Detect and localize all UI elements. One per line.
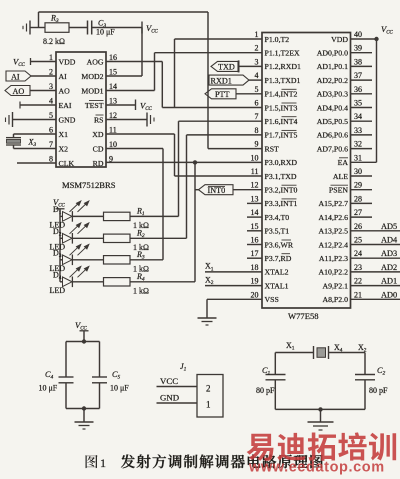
svg-text:AD3,P0.3: AD3,P0.3 xyxy=(317,90,348,99)
wire Vcc rail for LEDs xyxy=(59,209,61,282)
svg-text:8: 8 xyxy=(255,126,259,135)
svg-text:AD7,P0.6: AD7,P0.6 xyxy=(317,144,348,153)
svg-text:CLK: CLK xyxy=(59,159,75,168)
net flag INT0 at U2 pin 12 xyxy=(199,185,234,195)
overline on RS xyxy=(96,114,104,116)
svg-text:MOD2: MOD2 xyxy=(81,72,103,81)
svg-text:MSM7512BRS: MSM7512BRS xyxy=(62,180,116,190)
svg-text:RD: RD xyxy=(93,159,104,168)
LED D4 xyxy=(63,277,73,288)
svg-text:XD: XD xyxy=(92,130,104,139)
svg-text:2: 2 xyxy=(206,384,211,394)
svg-text:80 pF: 80 pF xyxy=(369,386,388,395)
wire LED row 1 anode xyxy=(60,215,63,217)
wire X1 leg to crystal X4 xyxy=(275,352,313,354)
overline on PSEN xyxy=(331,184,349,186)
capacitor C2 xyxy=(355,353,375,410)
wire into U2 pin 9 RST xyxy=(208,148,262,150)
wire stub U2 pin 37 xyxy=(351,79,373,81)
LED D2 xyxy=(63,233,73,244)
LED D3 emission arrows xyxy=(70,245,89,256)
svg-text:30: 30 xyxy=(354,167,362,176)
svg-text:16: 16 xyxy=(109,53,117,62)
svg-text:27: 27 xyxy=(354,208,362,217)
junction dot bottom of cap pair xyxy=(82,406,86,410)
svg-text:10 μF: 10 μF xyxy=(96,28,115,37)
ground below cap pair xyxy=(75,422,94,429)
wire crystal X4 to X2 leg xyxy=(329,352,366,354)
svg-text:19: 19 xyxy=(251,277,259,286)
svg-text:MOD1: MOD1 xyxy=(81,86,103,95)
svg-text:P3.7,RD: P3.7,RD xyxy=(265,254,292,263)
wire stub U2 pin 34 xyxy=(351,120,373,122)
overline on EA xyxy=(339,157,348,159)
svg-text:1: 1 xyxy=(206,400,211,410)
svg-text:AD0,P0.0: AD0,P0.0 xyxy=(317,49,348,58)
svg-text:P1.2,RXD1: P1.2,RXD1 xyxy=(265,62,301,71)
ground at U1 pin 5 GND xyxy=(6,112,13,127)
svg-text:P3.3,INT1: P3.3,INT1 xyxy=(265,199,298,208)
svg-text:P1.6,INT4: P1.6,INT4 xyxy=(265,117,298,126)
wire stub U2 pin 15 xyxy=(247,230,262,232)
power Vcc at U2 pin 40 VDD xyxy=(351,24,394,39)
wire stub U2 pin 16 xyxy=(247,244,262,246)
wire U2 pin 19 XTAL1 xyxy=(205,285,262,287)
wire LED row 4 anode xyxy=(60,281,63,283)
svg-text:VCC: VCC xyxy=(160,376,178,386)
wire stub at pin 8 CLK xyxy=(17,162,56,164)
wire AI flag to pin 2 xyxy=(31,75,56,77)
wire TXD flag to pin 3 xyxy=(240,65,263,67)
svg-text:W77E58: W77E58 xyxy=(288,311,319,321)
svg-text:RST: RST xyxy=(265,144,280,153)
svg-text:P3.1,TXD: P3.1,TXD xyxy=(265,172,297,181)
svg-text:15: 15 xyxy=(109,68,117,77)
svg-text:VDD: VDD xyxy=(59,57,76,66)
wire MOD2 (U1 pin 15) to Vcc xyxy=(106,75,142,77)
svg-text:10: 10 xyxy=(251,153,259,162)
power Vcc (MOD2 pull-up) xyxy=(142,22,159,35)
capacitor C5 xyxy=(92,342,107,409)
svg-text:15: 15 xyxy=(251,222,259,231)
svg-text:34: 34 xyxy=(354,112,362,121)
svg-text:8: 8 xyxy=(49,155,53,164)
wire U2 pin 18 XTAL2 xyxy=(205,271,262,273)
power Vcc for decoupling caps xyxy=(75,320,89,342)
svg-text:39: 39 xyxy=(354,44,362,53)
wire MOD1 (U1 pin 14) to U2 pin 2 xyxy=(106,53,262,91)
wire stub U2 pin 33 xyxy=(351,134,373,136)
wire stub U2 pin 39 xyxy=(351,52,373,54)
svg-text:TEST: TEST xyxy=(85,101,104,110)
wire resistor R1 to riser xyxy=(130,215,179,217)
svg-text:3: 3 xyxy=(49,82,53,91)
svg-text:1: 1 xyxy=(49,53,53,62)
wire Vcc terminal down to MOD2 xyxy=(141,28,143,77)
svg-text:12: 12 xyxy=(109,111,117,120)
wire U2 pin 1 xyxy=(175,38,263,40)
svg-text:P3.4,T0: P3.4,T0 xyxy=(265,213,290,222)
svg-text:P1.7,INT5: P1.7,INT5 xyxy=(265,131,298,140)
svg-text:2: 2 xyxy=(49,68,53,77)
svg-text:11: 11 xyxy=(109,126,117,135)
wire U2 pin 22 address bus xyxy=(351,285,400,287)
svg-text:1 kΩ: 1 kΩ xyxy=(133,286,149,295)
svg-text:AD1,P0.1: AD1,P0.1 xyxy=(317,62,348,71)
node X1 at U2 pin 18 xyxy=(205,262,214,273)
wire stub U2 pin 17 xyxy=(247,257,262,259)
power Vcc for LED block xyxy=(53,197,66,209)
resistor R4 (LED row 4) xyxy=(104,278,131,286)
svg-text:AD3: AD3 xyxy=(381,249,397,258)
svg-text:10 μF: 10 μF xyxy=(110,384,129,393)
svg-text:EA: EA xyxy=(338,158,349,167)
svg-text:P3.5,T1: P3.5,T1 xyxy=(265,227,290,236)
capacitor C4 xyxy=(59,342,74,409)
wire TEST (U1 pin 13) to Vcc xyxy=(106,104,135,106)
svg-text:AOG: AOG xyxy=(87,57,104,66)
resistor R3 xyxy=(45,23,69,33)
capacitor C1 xyxy=(266,353,286,410)
wire stub U2 pin 14 xyxy=(247,216,262,218)
svg-text:25: 25 xyxy=(354,236,362,245)
svg-text:14: 14 xyxy=(109,82,117,91)
net flag PTT at U2 pin 5 xyxy=(205,89,236,99)
wire stub U2 pin 38 xyxy=(351,65,373,67)
wire stub U2 pin 35 xyxy=(351,107,373,109)
wire U2 pin 21 address bus xyxy=(351,298,400,300)
svg-text:1: 1 xyxy=(255,30,259,39)
svg-text:33: 33 xyxy=(354,126,362,135)
wire U2 pin 20 VSS to ground xyxy=(207,299,262,317)
wire LED row 3 anode xyxy=(60,259,63,261)
wire stub at pin 4 EAI xyxy=(20,102,56,109)
svg-text:A11,P2.3: A11,P2.3 xyxy=(319,254,348,263)
LED D3 xyxy=(63,255,73,266)
LED D1 xyxy=(63,211,73,222)
wire LED D2 cathode to resistor xyxy=(72,237,103,239)
wire stub U2 pin 13 xyxy=(247,202,262,204)
svg-text:AI: AI xyxy=(11,72,20,81)
ground below crystal network xyxy=(308,422,334,430)
wire to ground (crystal network) xyxy=(320,409,322,421)
resistor R3 (LED row 3) xyxy=(104,256,131,264)
wire Vcc rail down right side to EA xyxy=(376,39,378,162)
wire LED D3 cathode to resistor xyxy=(72,259,103,261)
wire resistor R2 to riser xyxy=(130,237,187,239)
wire U2 pin 23 address bus xyxy=(351,271,400,273)
wire PTT flag to pin 5 xyxy=(236,93,262,95)
svg-text:20: 20 xyxy=(251,290,259,299)
wire U2 pin 25 address bus xyxy=(351,244,400,246)
svg-text:EAI: EAI xyxy=(59,101,72,110)
svg-text:AD6,P0.6: AD6,P0.6 xyxy=(317,131,348,140)
svg-text:AD5: AD5 xyxy=(381,222,397,231)
svg-text:10 μF: 10 μF xyxy=(39,384,58,393)
wire top rail (reset net) xyxy=(39,11,209,13)
svg-text:A15,P2.7: A15,P2.7 xyxy=(319,199,349,208)
svg-text:8.2 kΩ: 8.2 kΩ xyxy=(43,37,65,46)
svg-text:10: 10 xyxy=(109,140,117,149)
svg-text:TXD: TXD xyxy=(218,63,235,72)
svg-text:RS: RS xyxy=(94,115,104,124)
wire AOG to U2 pin 6 xyxy=(162,107,262,109)
svg-text:13: 13 xyxy=(251,194,259,203)
svg-text:P1.5,INT3: P1.5,INT3 xyxy=(265,103,298,112)
svg-text:80 pF: 80 pF xyxy=(256,386,275,395)
wire stub U2 pin 27 xyxy=(351,216,373,218)
wire top rail down to pin 8 row xyxy=(207,12,209,149)
wire C3 to Vcc terminal xyxy=(92,27,142,29)
svg-text:PSEN: PSEN xyxy=(329,186,348,195)
junction dot on RD line xyxy=(193,160,197,164)
svg-text:5: 5 xyxy=(255,85,259,94)
wire RD (U1 pin 9) to U2 pin 10 xyxy=(106,161,262,163)
svg-text:AD1: AD1 xyxy=(381,277,397,286)
wire U2 pin 31 EA to Vcc rail xyxy=(351,161,377,163)
wire ground to pin 5 xyxy=(13,119,57,121)
connector J1 body xyxy=(197,375,223,418)
wire top of cap pair xyxy=(66,341,100,343)
svg-text:6: 6 xyxy=(49,126,53,135)
svg-text:A9,P2.1: A9,P2.1 xyxy=(322,281,348,290)
svg-text:P3.0,RXD: P3.0,RXD xyxy=(265,158,298,167)
wire XD (U1 pin 11) to U2 pin 11 xyxy=(106,134,262,176)
wire into U2 pin 8 xyxy=(187,134,263,136)
svg-text:CD: CD xyxy=(93,144,104,153)
wire stub U2 pin 32 xyxy=(351,148,373,150)
wire INT0 flag stub to RD riser xyxy=(195,189,199,191)
svg-text:PTT: PTT xyxy=(215,90,230,99)
junction dot top of cap pair xyxy=(82,339,86,343)
wire bottom of cap pair xyxy=(66,408,100,410)
svg-text:A12,P2.4: A12,P2.4 xyxy=(319,240,349,249)
svg-text:AI: AI xyxy=(59,72,68,81)
wire RD riser down to LED row 4 xyxy=(194,162,196,281)
ground at U2 VSS xyxy=(198,318,217,325)
svg-text:VDD: VDD xyxy=(331,35,348,44)
LED D1 emission arrows xyxy=(70,201,89,212)
svg-text:AO: AO xyxy=(13,87,25,96)
svg-text:14: 14 xyxy=(251,208,259,217)
svg-text:28: 28 xyxy=(354,194,362,203)
wire ground to R3 xyxy=(30,27,45,29)
overlines on INT2-INT5 INT0 INT1 WR RD labels xyxy=(282,89,297,253)
svg-text:VSS: VSS xyxy=(265,295,279,304)
net flag AO (analog out) xyxy=(5,86,30,96)
overline on TEST xyxy=(89,100,104,102)
svg-text:18: 18 xyxy=(251,263,259,272)
svg-text:21: 21 xyxy=(354,290,362,299)
wire resistor R4 to riser xyxy=(130,281,195,283)
svg-text:7: 7 xyxy=(255,112,259,121)
svg-text:16: 16 xyxy=(251,236,259,245)
svg-text:37: 37 xyxy=(354,71,362,80)
svg-text:12: 12 xyxy=(251,181,259,190)
svg-text:3: 3 xyxy=(255,57,259,66)
wire INT0 flag to pin 12 xyxy=(233,189,262,191)
wire stub U2 pin 36 xyxy=(351,93,373,95)
svg-text:A13,P2.5: A13,P2.5 xyxy=(319,227,349,236)
wire CD (U1 pin 10) down to LED row 3 xyxy=(106,149,163,260)
svg-text:P1.4,INT2: P1.4,INT2 xyxy=(265,90,298,99)
MCU U2 W77E58 body xyxy=(262,33,351,309)
wire riser from R3 node to top rail xyxy=(38,12,40,28)
svg-text:www.eedatop.com: www.eedatop.com xyxy=(248,460,385,476)
svg-text:26: 26 xyxy=(354,222,362,231)
svg-text:4: 4 xyxy=(49,97,53,106)
svg-text:LED: LED xyxy=(50,286,66,295)
wire RS (U1 pin 12) to ground xyxy=(106,119,147,121)
svg-text:P1.1,T2EX: P1.1,T2EX xyxy=(265,49,300,58)
svg-text:AD0: AD0 xyxy=(381,290,397,299)
svg-text:31: 31 xyxy=(354,153,362,162)
svg-text:GND: GND xyxy=(160,393,179,403)
svg-text:4: 4 xyxy=(255,71,259,80)
svg-text:P1.3,TXD1: P1.3,TXD1 xyxy=(265,76,301,85)
junction dot crystal network xyxy=(318,407,322,411)
wire AO flag to pin 3 xyxy=(30,90,56,92)
crystal X4 xyxy=(314,346,329,359)
net flag RXD1 at U2 pin 4 xyxy=(209,75,249,85)
svg-text:23: 23 xyxy=(354,263,362,272)
svg-text:24: 24 xyxy=(354,249,362,258)
wire bottom of crystal network xyxy=(275,408,365,410)
svg-text:22: 22 xyxy=(354,277,362,286)
LED D4 emission arrows xyxy=(70,267,89,278)
svg-text:AD2,P0.2: AD2,P0.2 xyxy=(317,76,348,85)
wire U2 pin 26 address bus xyxy=(351,230,400,232)
wire riser pin8-net down to LED row 2 xyxy=(186,135,188,238)
wire VCC to J1 xyxy=(157,386,198,388)
svg-text:GND: GND xyxy=(59,115,76,124)
svg-text:AO: AO xyxy=(59,86,71,95)
svg-text:AD4,P0.4: AD4,P0.4 xyxy=(317,103,348,112)
resistor R1 (LED row 1) xyxy=(104,212,131,220)
wire stub U2 pin 28 xyxy=(351,202,373,204)
crystal X3 xyxy=(6,134,21,149)
svg-text:P1.0,T2: P1.0,T2 xyxy=(265,35,290,44)
svg-text:X1: X1 xyxy=(59,130,69,139)
svg-text:36: 36 xyxy=(354,85,362,94)
svg-text:XTAL1: XTAL1 xyxy=(265,281,289,290)
ground (top-left, beside R3) xyxy=(23,21,30,35)
wire LED D1 cathode to resistor xyxy=(72,215,103,217)
wire stub U2 pin 30 xyxy=(351,175,373,177)
watermark: training site logo text xyxy=(247,432,396,461)
net flag TXD at U2 pin 3 xyxy=(211,60,239,72)
svg-text:A14,P2.6: A14,P2.6 xyxy=(319,213,349,222)
wire RXD1 flag to pin 4 xyxy=(249,79,262,81)
svg-text:32: 32 xyxy=(354,140,362,149)
wire stub U2 pin 29 xyxy=(351,189,373,191)
svg-text:X2: X2 xyxy=(59,144,69,153)
svg-text:P3.2,INT0: P3.2,INT0 xyxy=(265,186,298,195)
svg-text:INT0: INT0 xyxy=(208,186,226,195)
wire to ground (cap pair) xyxy=(83,409,85,422)
svg-text:40: 40 xyxy=(354,30,362,39)
svg-text:1: 1 xyxy=(100,456,106,470)
svg-text:9: 9 xyxy=(255,140,259,149)
power Vcc at TEST xyxy=(136,100,153,113)
svg-text:7: 7 xyxy=(49,140,53,149)
net flag AI (analog in) xyxy=(6,71,31,81)
svg-text:P3.6,WR: P3.6,WR xyxy=(265,240,294,249)
svg-text:35: 35 xyxy=(354,99,362,108)
wire riser pin 7 down to LED row 1 xyxy=(178,121,180,216)
svg-text:XTAL2: XTAL2 xyxy=(265,268,289,277)
wire pin 7 X2 to crystal xyxy=(14,148,57,150)
wire LED D4 cathode to resistor xyxy=(72,281,103,283)
wire U2 pin 24 address bus xyxy=(351,257,400,259)
node X2 at U2 pin 19 xyxy=(205,275,214,286)
wire R3 to C3 xyxy=(69,27,88,29)
junction dot Vcc rail xyxy=(374,37,378,41)
svg-text:17: 17 xyxy=(251,249,259,258)
svg-text:38: 38 xyxy=(354,57,362,66)
LED D2 emission arrows xyxy=(70,223,89,234)
svg-text:29: 29 xyxy=(354,181,362,190)
wire LED row 2 anode xyxy=(60,237,63,239)
svg-text:AD2: AD2 xyxy=(381,263,397,272)
svg-text:AD5,P0.5: AD5,P0.5 xyxy=(317,117,348,126)
resistor R2 (LED row 2) xyxy=(104,234,131,242)
wire Vcc to pin 1 xyxy=(31,61,57,63)
wire U2 pin 7 xyxy=(179,120,263,122)
modem IC U1 MSM7512BRS body xyxy=(56,52,106,167)
svg-text:ALE: ALE xyxy=(333,172,348,181)
wire AOG (U1 pin 16) toward U2 pin 6 xyxy=(106,62,162,108)
svg-text:RXD1: RXD1 xyxy=(211,76,232,85)
svg-text:11: 11 xyxy=(251,167,259,176)
svg-text:A10,P2.2: A10,P2.2 xyxy=(319,268,349,277)
svg-text:2: 2 xyxy=(255,44,259,53)
svg-text:AD4: AD4 xyxy=(381,236,398,245)
svg-text:A8,P2.0: A8,P2.0 xyxy=(322,295,348,304)
capacitor C3 xyxy=(88,21,92,35)
svg-text:13: 13 xyxy=(109,97,117,106)
svg-text:6: 6 xyxy=(255,99,259,108)
caption: figure 1 transmitter modem schematic xyxy=(86,454,323,470)
svg-text:5: 5 xyxy=(49,111,53,120)
wire resistor R3 to riser xyxy=(130,259,163,261)
wire GND to J1 xyxy=(157,402,198,404)
power Vcc at U1 pin 1 VDD xyxy=(13,57,31,69)
ground at RS xyxy=(147,113,154,127)
wire riser pin1 to pin6 net xyxy=(174,39,176,108)
wire pin 6 X1 to crystal xyxy=(14,133,57,135)
